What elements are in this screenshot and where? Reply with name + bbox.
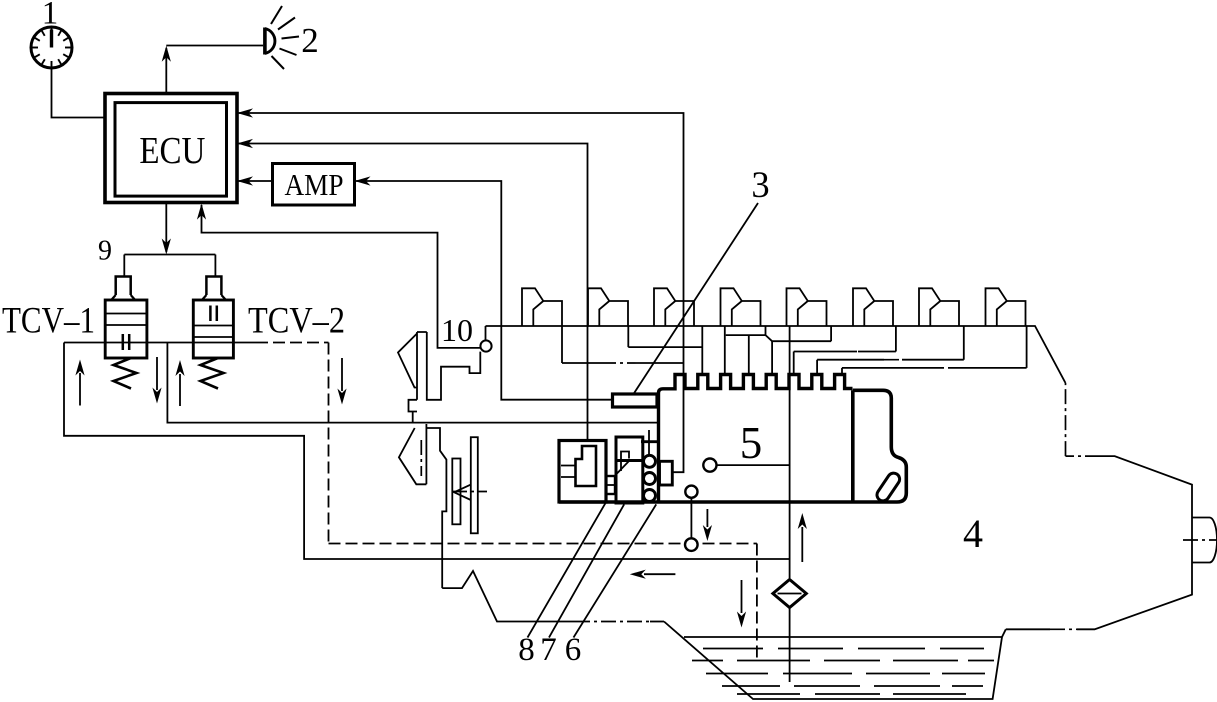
- svg-text:9: 9: [98, 236, 112, 267]
- svg-text:7: 7: [540, 632, 557, 668]
- svg-text:TCV–2: TCV–2: [248, 301, 345, 342]
- svg-text:10: 10: [441, 312, 473, 348]
- svg-text:8: 8: [518, 632, 535, 668]
- svg-text:5: 5: [740, 418, 763, 468]
- svg-text:6: 6: [565, 632, 582, 668]
- svg-text:ECU: ECU: [139, 130, 205, 172]
- svg-text:1: 1: [42, 0, 59, 32]
- svg-text:3: 3: [751, 164, 769, 205]
- svg-text:TCV–1: TCV–1: [2, 301, 95, 342]
- svg-text:4: 4: [963, 511, 983, 556]
- svg-text:AMP: AMP: [285, 167, 344, 202]
- svg-text:2: 2: [301, 21, 319, 60]
